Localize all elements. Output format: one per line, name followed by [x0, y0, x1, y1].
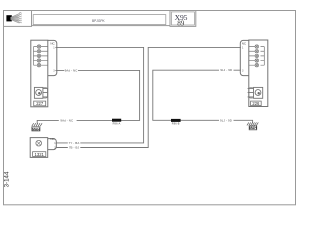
svg-text:R96-A: R96-A: [113, 122, 121, 125]
svg-text:7B - BJ: 7B - BJ: [69, 146, 80, 150]
svg-text:9Ad - NC: 9Ad - NC: [65, 68, 78, 72]
svg-text:227: 227: [36, 101, 44, 106]
svg-text:R96-B: R96-B: [172, 123, 180, 126]
svg-text:9Ad - NC: 9Ad - NC: [60, 118, 73, 122]
svg-text:MAH: MAH: [249, 126, 257, 130]
svg-text:9LJ - 9D: 9LJ - 9D: [220, 68, 232, 72]
svg-text:89: 89: [177, 20, 185, 28]
svg-text:226: 226: [252, 101, 260, 106]
svg-text:3-144: 3-144: [4, 171, 11, 187]
svg-text:1321: 1321: [35, 152, 45, 157]
svg-text:BPJGPK: BPJGPK: [92, 19, 105, 23]
svg-text:MAH: MAH: [32, 127, 40, 131]
svg-text:9LJ - 9D: 9LJ - 9D: [220, 118, 232, 122]
svg-text:7Y - BA: 7Y - BA: [69, 141, 80, 145]
